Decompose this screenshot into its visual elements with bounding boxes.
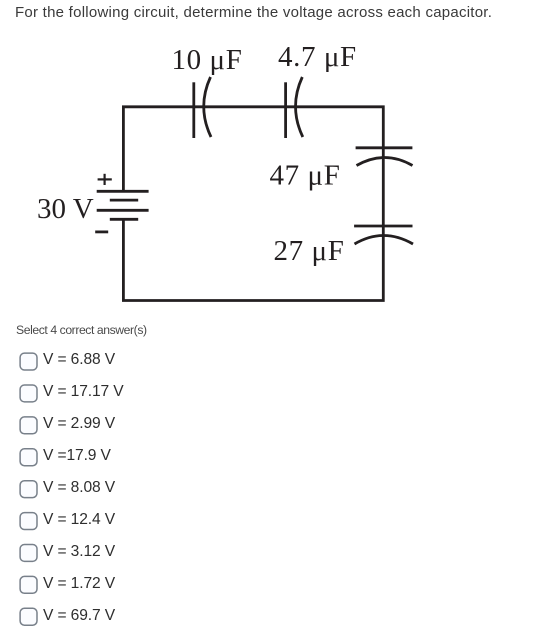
svg-text:27 μF: 27 μF bbox=[274, 235, 345, 267]
svg-text:10 μF: 10 μF bbox=[172, 44, 243, 76]
svg-text:4.7 μF: 4.7 μF bbox=[278, 41, 357, 73]
svg-text:30 V: 30 V bbox=[37, 193, 94, 225]
svg-text:47 μF: 47 μF bbox=[270, 159, 341, 191]
